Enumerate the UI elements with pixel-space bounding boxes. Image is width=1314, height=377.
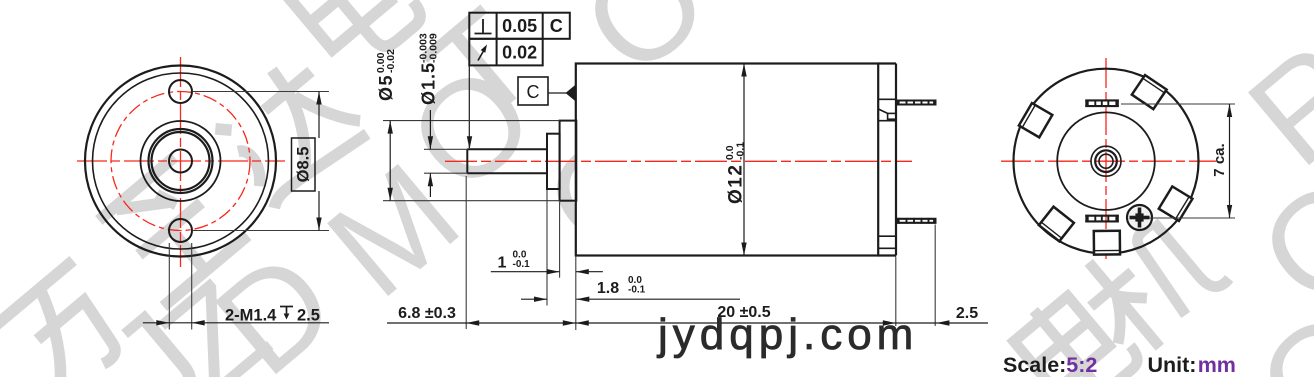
shaft collar: [547, 134, 560, 189]
dim 1 label: [498, 250, 531, 272]
svg-text:-0.02: -0.02: [385, 49, 397, 73]
scale label: [1003, 353, 1097, 377]
dim 8.5 top extension line: [193, 91, 330, 93]
dim dia1.5 bottom extension: [424, 172, 467, 174]
body white fill: [576, 64, 896, 256]
right view inner circle: [1057, 112, 1155, 210]
ext line cap right: [895, 257, 897, 327]
fcf perpendicularity symbol: [475, 19, 492, 34]
svg-text:0.05: 0.05: [502, 16, 537, 36]
svg-text:1.8: 1.8: [597, 280, 619, 297]
dim 7 label: [1211, 143, 1228, 176]
middle red centerline: [445, 160, 912, 162]
svg-text:C: C: [527, 82, 540, 102]
svg-text:7 ca.: 7 ca.: [1211, 143, 1228, 176]
left view boss circle d5: [141, 121, 221, 201]
dim 7 bottom extension: [1149, 217, 1235, 219]
ext line shaft tip: [465, 176, 467, 329]
dim 6.8 arrows: [466, 320, 576, 325]
fcf datum ref C: [550, 16, 563, 36]
left view red horizontal centerline: [77, 160, 285, 162]
right view bearing circle outer: [1091, 146, 1121, 176]
svg-text:6.8 ±0.3: 6.8 ±0.3: [398, 305, 456, 322]
dim 20 arrows: [576, 320, 896, 325]
cap top notch box: [878, 113, 896, 120]
dim 2-M1.4 label: [225, 307, 320, 325]
svg-text:mm: mm: [1198, 353, 1236, 377]
left view red bolt circle: [111, 92, 250, 231]
housing tab bottom left: [1039, 207, 1074, 242]
datum C box: [518, 77, 548, 105]
dim dia12 label: [724, 142, 747, 204]
svg-text:Ø12: Ø12: [726, 164, 747, 204]
left view red vertical centerline: [180, 57, 182, 267]
rear terminal bottom: [1085, 215, 1119, 223]
housing tab right: [1159, 186, 1193, 220]
dim dia1.5 line: [428, 110, 433, 197]
left view outer circle: [85, 66, 276, 257]
left view collar outer circle: [149, 129, 213, 193]
dim 2-M1.4 left extension line: [168, 243, 170, 330]
svg-text:0.02: 0.02: [502, 43, 537, 63]
unit label: [1148, 353, 1236, 377]
dim dia5 line: [388, 121, 393, 201]
dim 1 line: [491, 269, 603, 274]
dim 1.8 label: [597, 275, 646, 297]
fcf leader to shaft: [467, 65, 472, 149]
dim dia5 top extension: [383, 120, 560, 122]
dim 2-M1.4 dimension line: [143, 320, 329, 325]
svg-text:Unit:: Unit:: [1148, 353, 1197, 377]
svg-text:C: C: [550, 16, 563, 36]
svg-text:Ø5: Ø5: [376, 74, 396, 101]
svg-text:-0.1: -0.1: [513, 259, 531, 270]
rear terminal top: [1085, 100, 1119, 108]
svg-text:-0.1: -0.1: [628, 285, 646, 296]
dim 8.5 bottom extension line: [193, 230, 330, 232]
dim 20 label: [717, 304, 770, 321]
housing tab top right: [1132, 75, 1167, 109]
bottom dimension line: [387, 322, 988, 324]
svg-text:jydqpj.com: jydqpj.com: [656, 310, 918, 359]
end cap right edge: [878, 64, 896, 256]
dim 8.5 label box: [292, 138, 316, 191]
screw head: [1127, 205, 1152, 230]
ext line boss left: [559, 202, 561, 278]
cap top detail line: [878, 98, 896, 100]
housing tab bottom: [1094, 231, 1120, 255]
left view collar inner circle: [152, 132, 210, 190]
left view bottom mounting hole: [169, 219, 192, 242]
housing tab left: [1019, 103, 1052, 137]
svg-text:1: 1: [498, 255, 507, 272]
ext line terminal tip: [934, 225, 936, 327]
svg-text:Scale:: Scale:: [1003, 353, 1066, 377]
fcf value 0.02: [502, 43, 537, 63]
right view red vertical centerline: [1105, 58, 1107, 259]
dim 2.5 arrow: [936, 320, 949, 325]
dim 7 line: [1227, 104, 1232, 218]
left view top mounting hole: [169, 80, 192, 103]
ext line collar left: [546, 190, 548, 306]
right view bearing circle mid: [1095, 150, 1117, 172]
left view shaft circle: [169, 150, 192, 173]
dim 2-M1.4 right extension line: [191, 243, 193, 330]
dim 2.5 label: [956, 305, 978, 322]
dim 8.5 label text: [295, 147, 313, 183]
left view inner rim circle: [93, 73, 269, 249]
svg-text:2.5: 2.5: [297, 307, 320, 325]
fcf value 0.05: [502, 16, 537, 36]
svg-text:-0.009: -0.009: [428, 33, 440, 63]
fcf frame: [469, 13, 570, 66]
cap top chamfer: [879, 109, 888, 113]
dim dia12 line: [741, 64, 746, 256]
fcf runout symbol: [478, 45, 487, 61]
right view red horizontal centerline: [1001, 160, 1216, 162]
dim 8.5 dimension line: [316, 92, 321, 231]
dim dia1.5 label: [418, 33, 440, 105]
dim dia5 bottom extension: [383, 200, 560, 202]
svg-text:Ø1.5: Ø1.5: [419, 62, 439, 105]
body outline: [576, 64, 878, 256]
dim dia5 label: [375, 49, 397, 101]
watermark jydqpj.com: [656, 310, 918, 359]
shaft outline: [467, 149, 547, 173]
right view outer circle: [1014, 69, 1199, 254]
terminal pin top: [896, 100, 937, 106]
svg-text:2-M1.4: 2-M1.4: [225, 307, 277, 325]
cap bottom detail lines: [878, 236, 896, 248]
svg-text:Ø8.5: Ø8.5: [295, 147, 313, 183]
dim 7 top extension: [1121, 103, 1235, 105]
ext line body face: [575, 256, 577, 331]
right view shaft hole: [1099, 154, 1113, 168]
dim 6.8 label: [398, 305, 456, 322]
bearing boss: [560, 121, 577, 201]
dim dia1.5 top extension: [424, 148, 467, 150]
svg-text:2.5: 2.5: [956, 305, 978, 322]
svg-text:5:2: 5:2: [1066, 353, 1097, 377]
terminal pin bottom: [896, 218, 937, 224]
svg-text:-0.1: -0.1: [735, 142, 747, 160]
datum C leader: [548, 85, 576, 102]
dim 1.8 line: [521, 297, 740, 302]
